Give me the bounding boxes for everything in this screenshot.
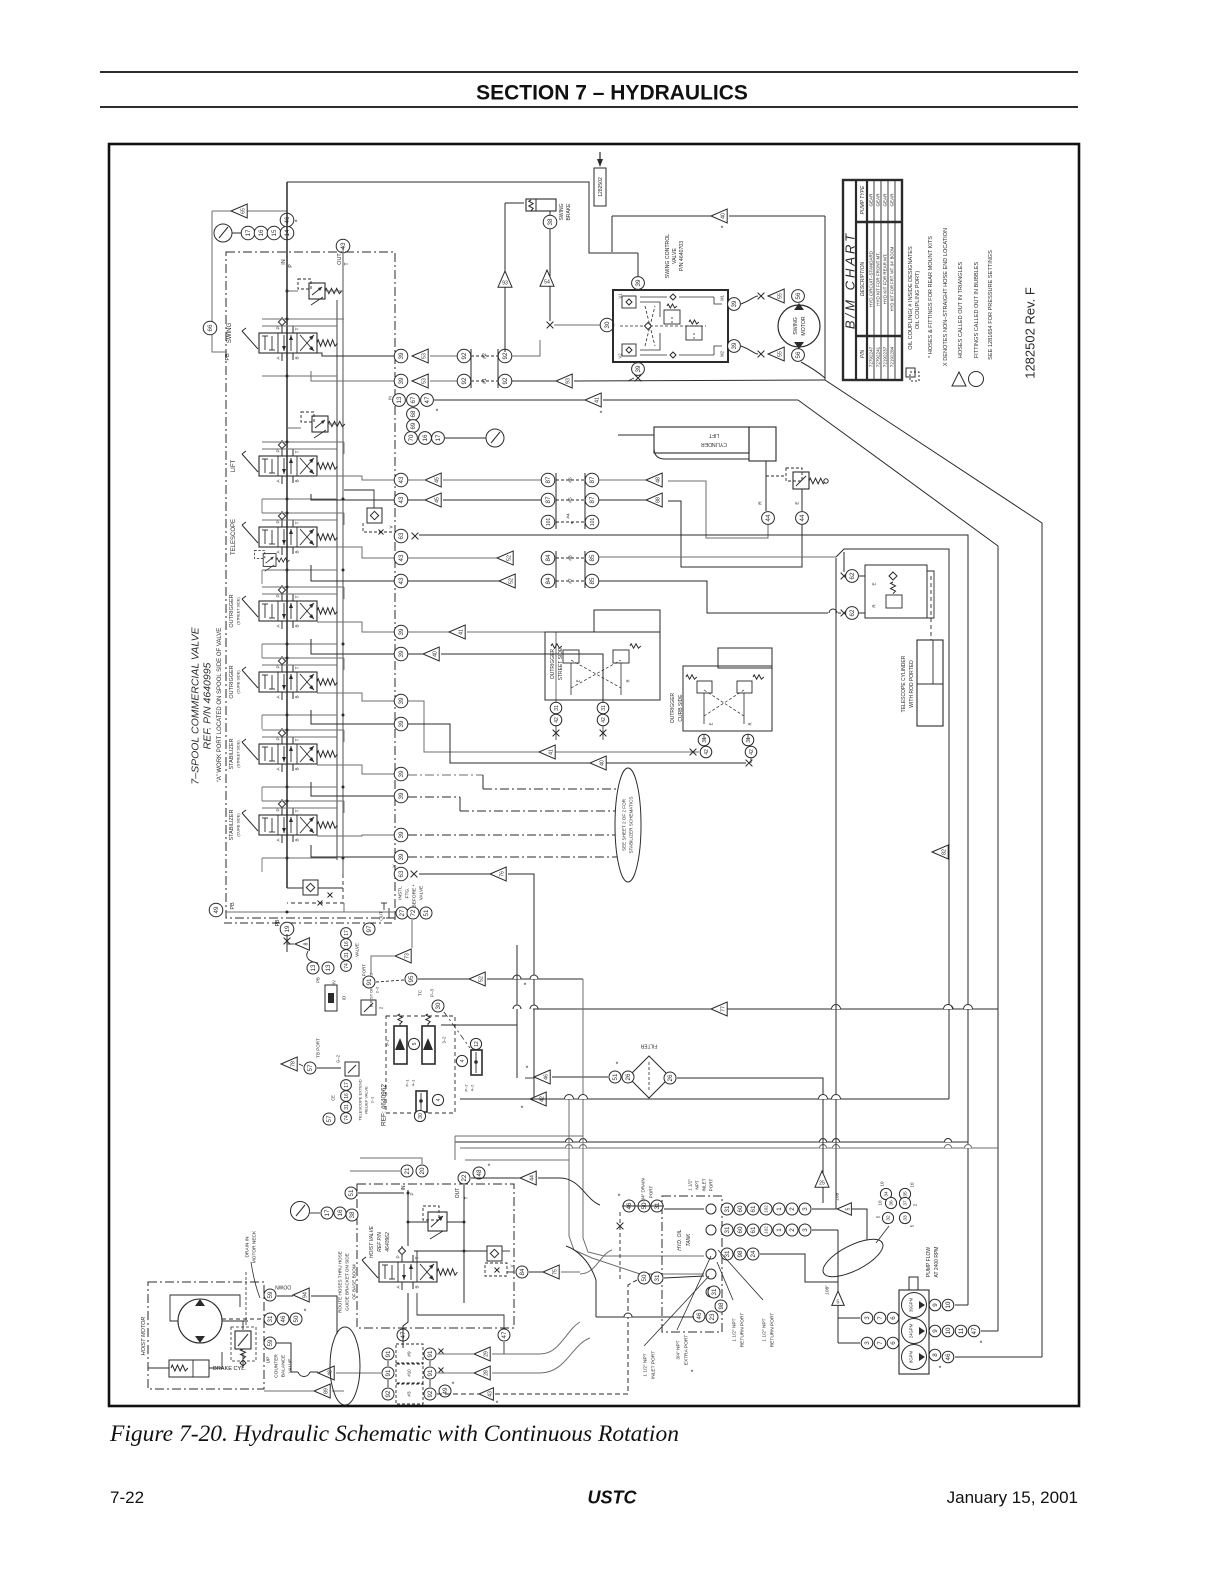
- x mark 62b: [841, 610, 848, 617]
- svg-text:12: 12: [474, 1041, 480, 1047]
- svg-text:*: *: [616, 1061, 619, 1068]
- coupling #5: [556, 499, 585, 501]
- svg-text:CE: CE: [330, 1095, 335, 1101]
- bubble 17: [241, 226, 255, 240]
- svg-text:59: 59: [267, 1291, 274, 1298]
- valve section V-TELESCOPE-537: [242, 511, 337, 555]
- wire os2 dn: [602, 726, 604, 740]
- svg-text:A: A: [276, 767, 281, 771]
- bubble 49 r3: [439, 1385, 451, 1397]
- bubble 66: [203, 321, 217, 335]
- svg-text:DRAIN IN: DRAIN IN: [245, 1236, 251, 1258]
- bubble 46 t: [623, 1200, 635, 1212]
- wire stabS B: [317, 765, 394, 774]
- svg-text:31: 31: [724, 1250, 731, 1257]
- svg-text:E: E: [795, 501, 801, 504]
- bubble 39 s1: [394, 767, 408, 781]
- coupling #7: [556, 580, 585, 582]
- svg-text:17: 17: [245, 229, 252, 236]
- pump circle 2: [902, 1319, 927, 1344]
- tag 1282502 box: [594, 168, 606, 206]
- bubble 39 m1: [728, 298, 741, 311]
- carryover above2 825: [262, 807, 337, 809]
- wire 47a: [403, 1293, 408, 1348]
- wire 40: [612, 215, 711, 217]
- svg-text:T: T: [344, 262, 350, 265]
- svg-text:BALANCE: BALANCE: [281, 1355, 287, 1377]
- svg-text:74: 74: [344, 963, 350, 969]
- svg-text:49: 49: [442, 1387, 449, 1394]
- svg-text:P: P: [396, 1255, 401, 1258]
- svg-text:EXTRA PORT: EXTRA PORT: [684, 1335, 690, 1365]
- svg-text:40: 40: [599, 760, 605, 766]
- valve section V-SWING: [242, 317, 337, 361]
- svg-text:E: E: [708, 722, 713, 725]
- bubble 37: [899, 1197, 910, 1208]
- svg-text:39: 39: [398, 377, 405, 384]
- lift relief valve: [793, 472, 809, 489]
- note oil coupling symbol: [906, 368, 915, 377]
- carryover above2 682: [262, 664, 337, 666]
- wire stabC B: [317, 835, 394, 836]
- svg-text:31: 31: [724, 1226, 731, 1233]
- svg-text:MOTOR NECK: MOTOR NECK: [252, 1230, 258, 1263]
- svg-text:*: *: [980, 1340, 983, 1347]
- svg-text:FILTER: FILTER: [640, 1042, 657, 1048]
- svg-text:57: 57: [307, 1064, 314, 1071]
- row1 bubbles: [721, 1203, 733, 1215]
- wire 44h: [471, 1177, 520, 1179]
- bubble 87 p2: [585, 473, 599, 487]
- motor inner wires: [170, 1295, 240, 1321]
- bubble 91: [363, 976, 375, 988]
- svg-text:FITTINGS CALLED OUT IN BUBBLES: FITTINGS CALLED OUT IN BUBBLES: [974, 261, 980, 358]
- x mark m1: [758, 293, 765, 300]
- x 19: [284, 938, 291, 945]
- triangle 40: [711, 209, 727, 223]
- svg-text:76: 76: [499, 871, 505, 877]
- bubble 47 a: [397, 1329, 409, 1341]
- carryover above 754: [262, 729, 344, 731]
- svg-text:72792247: 72792247: [869, 346, 874, 367]
- svg-text:6: 6: [890, 1316, 897, 1320]
- svg-text:B: B: [295, 624, 300, 627]
- svg-text:2: 2: [789, 1207, 796, 1211]
- dash t vert: [619, 1212, 621, 1280]
- svg-text:78: 78: [290, 1061, 296, 1067]
- wire r1 vert: [387, 1361, 389, 1366]
- svg-text:46: 46: [945, 1353, 952, 1360]
- riser link: [336, 300, 338, 860]
- triangle 77: [711, 1002, 727, 1016]
- svg-text:91: 91: [427, 1369, 434, 1376]
- svg-text:15: 15: [271, 229, 278, 236]
- bubble 48 h: [473, 1167, 485, 1179]
- wire lift E1: [668, 481, 768, 538]
- section links 611: [261, 644, 263, 658]
- vertical x836: [835, 558, 837, 1209]
- svg-text:BRAKE: BRAKE: [566, 203, 572, 221]
- svg-text:93: 93: [565, 378, 571, 384]
- wire gauge q: [445, 437, 486, 439]
- svg-text:10: 10: [910, 1182, 915, 1188]
- svg-text:A: A: [396, 1285, 401, 1289]
- cartridge 3-1: [394, 1026, 407, 1064]
- wire row1: [622, 1205, 664, 1207]
- svg-text:TANK: TANK: [686, 1233, 692, 1247]
- svg-text:5: 5: [910, 1224, 915, 1227]
- svg-text:8: 8: [303, 942, 309, 945]
- svg-text:HYD. OIL: HYD. OIL: [677, 1229, 683, 1251]
- wire 21 feed: [350, 1170, 400, 1172]
- bubble 10 q1: [942, 1299, 954, 1311]
- wire diagonal D1: [825, 380, 1042, 1357]
- svg-text:P: P: [276, 520, 281, 523]
- bubble 85 t1: [585, 551, 599, 565]
- svg-text:39: 39: [398, 853, 405, 860]
- svg-text:P–3: P–3: [430, 989, 435, 998]
- svg-text:55: 55: [777, 351, 783, 357]
- svg-text:39: 39: [398, 792, 405, 799]
- svg-text:30: 30: [435, 1002, 442, 1009]
- svg-text:32: 32: [886, 1215, 892, 1221]
- col2 bubble 17: [341, 1080, 352, 1091]
- coupling #3: [396, 1384, 423, 1404]
- triangle 5 b: [832, 1291, 844, 1305]
- wire o2 right2: [441, 654, 603, 702]
- svg-text:TC: TC: [418, 989, 423, 996]
- cartridge 4v: [471, 1050, 482, 1075]
- wire outS B: [317, 622, 394, 632]
- bubble 31 t5: [708, 1286, 720, 1298]
- hoist dash boundary: [357, 1184, 514, 1328]
- pump body: [899, 1290, 929, 1374]
- svg-text:X DENOTES NON–STRAIGHT HOSE EN: X DENOTES NON–STRAIGHT HOSE END LOCATION: [943, 228, 949, 366]
- svg-text:T: T: [295, 327, 300, 330]
- svg-text:*: *: [524, 982, 527, 989]
- svg-text:108”: 108”: [835, 1191, 841, 1201]
- svg-text:60: 60: [737, 1226, 744, 1233]
- wire swing A: [311, 371, 394, 381]
- svg-text:P–1: P–1: [404, 1079, 409, 1087]
- triangle 75: [543, 1265, 559, 1279]
- bubble 68 q: [407, 408, 420, 421]
- svg-text:*: *: [521, 1105, 524, 1112]
- triangle 82: [932, 845, 948, 859]
- wire s4 dashdot: [408, 856, 617, 858]
- x curb E: [690, 749, 697, 756]
- swing brake spring box: [526, 199, 556, 211]
- svg-text:10: 10: [878, 1200, 883, 1206]
- svg-text:TELESCOPE EXTEND: TELESCOPE EXTEND: [357, 1079, 362, 1120]
- bubble 56 b: [792, 349, 805, 362]
- svg-text:39: 39: [398, 770, 405, 777]
- bus left drops: [454, 1136, 456, 1160]
- svg-text:HYD CIRCUIT–STANDARD: HYD CIRCUIT–STANDARD: [869, 250, 874, 307]
- svg-text:A: A: [276, 550, 281, 554]
- svg-text:7: 7: [877, 1341, 884, 1345]
- wire c2 right: [408, 724, 746, 763]
- check valve CV3: [487, 1246, 502, 1261]
- wire filter right: [677, 1078, 823, 1203]
- svg-text:BEFORE *: BEFORE *: [412, 884, 418, 907]
- bubble 6 p1: [887, 1312, 899, 1324]
- svg-text:59: 59: [267, 1339, 274, 1346]
- svg-text:OIL COUPLING PORT): OIL COUPLING PORT): [915, 271, 921, 330]
- svg-text:3: 3: [864, 1341, 871, 1345]
- wire 108 hose A: [852, 1209, 867, 1240]
- coupling #1 box: [471, 380, 498, 382]
- svg-text:77: 77: [720, 1006, 726, 1012]
- carryover below 611: [262, 643, 337, 645]
- hoist relief: [423, 1206, 439, 1220]
- bubble 5: [408, 1038, 419, 1049]
- svg-text:#1: #1: [482, 378, 488, 384]
- svg-text:R: R: [872, 604, 877, 608]
- wire 93 riser: [504, 203, 506, 352]
- bubble 59 a: [264, 1289, 276, 1301]
- triangle 45 b: [425, 493, 441, 507]
- pressure riser P: [286, 182, 288, 888]
- wire o2 right: [408, 653, 423, 655]
- triangle 45 a: [425, 473, 441, 487]
- svg-text:MOTOR: MOTOR: [801, 316, 807, 335]
- svg-text:A: A: [276, 479, 281, 483]
- wire c1 right: [408, 701, 699, 752]
- svg-text:92: 92: [385, 1390, 392, 1397]
- svg-text:V1: V1: [617, 293, 622, 299]
- wire sw2 right: [430, 380, 457, 382]
- wire 874: [419, 873, 490, 875]
- svg-text:82: 82: [941, 849, 947, 855]
- drawing frame: [109, 144, 1079, 1406]
- wire v2 join: [628, 378, 634, 381]
- svg-text:10: 10: [945, 1301, 952, 1308]
- svg-text:T: T: [295, 521, 300, 524]
- svg-text:*: *: [939, 1365, 942, 1372]
- relief valve RV2: [301, 412, 345, 438]
- svg-text:4–1: 4–1: [410, 1079, 415, 1086]
- svg-text:43: 43: [340, 242, 347, 249]
- wire lift R: [765, 461, 767, 511]
- svg-text:#5: #5: [568, 497, 574, 503]
- svg-text:#2: #2: [482, 353, 488, 359]
- wire L1 right: [408, 479, 426, 481]
- bubble 42 os2: [597, 714, 609, 726]
- svg-text:T: T: [295, 809, 300, 812]
- svg-text:P: P: [276, 737, 281, 740]
- brake cyl: [169, 1360, 209, 1377]
- bubble 44 a: [762, 512, 775, 525]
- bubble 85 t2: [585, 574, 599, 588]
- wire 48b: [276, 1343, 298, 1372]
- triangle 44 h: [520, 1171, 536, 1185]
- wire tele A: [311, 565, 394, 581]
- wire pb dashdot: [224, 922, 394, 924]
- vertical x569: [569, 1099, 704, 1274]
- valve section V-STABILIZER-754: [242, 728, 337, 772]
- svg-text:RETURN PORT: RETURN PORT: [770, 1313, 776, 1348]
- svg-text:T: T: [295, 666, 300, 669]
- svg-text:87: 87: [545, 476, 552, 483]
- svg-text:PB: PB: [275, 919, 281, 926]
- svg-text:39: 39: [731, 342, 738, 349]
- x r2: [439, 1368, 444, 1373]
- svg-text:GEAR: GEAR: [883, 193, 888, 207]
- svg-text:STABILIZER: STABILIZER: [229, 809, 235, 840]
- bubble 72: [407, 907, 419, 919]
- svg-text:41: 41: [458, 629, 464, 635]
- carryover below swing: [262, 375, 337, 377]
- wire cb down: [242, 1354, 244, 1368]
- outrigger street block: [545, 632, 660, 700]
- svg-text:OUTRIGGER: OUTRIGGER: [229, 594, 235, 627]
- svg-text:28: 28: [483, 1370, 489, 1376]
- coupling #2 box: [470, 349, 472, 388]
- triangle 88 lift: [646, 493, 662, 507]
- bubble 4 a: [456, 1055, 467, 1066]
- bus y1148: [460, 1147, 998, 1149]
- svg-text:52: 52: [506, 555, 512, 561]
- svg-text:*: *: [571, 521, 574, 528]
- wire 51h: [358, 1192, 404, 1194]
- svg-text:10: 10: [880, 1181, 885, 1187]
- svg-text:46: 46: [543, 1074, 549, 1080]
- svg-text:91: 91: [385, 1350, 392, 1357]
- carryover above2 754: [262, 736, 337, 738]
- svg-text:87: 87: [589, 476, 596, 483]
- svg-text:USTC: USTC: [588, 1487, 638, 1507]
- junction dots 611: [286, 586, 289, 589]
- svg-text:CYLINDER: CYLINDER: [701, 441, 727, 447]
- lift relief pilot: [786, 468, 802, 481]
- svg-text:VALVE: VALVE: [355, 943, 360, 957]
- svg-text:(CURB SIDE): (CURB SIDE): [236, 670, 240, 694]
- wire 62 vert: [843, 552, 845, 572]
- svg-text:108”: 108”: [825, 1285, 831, 1295]
- svg-text:1 1/2” NPT: 1 1/2” NPT: [732, 1318, 738, 1341]
- svg-text:3/4” NPT: 3/4” NPT: [676, 1340, 682, 1359]
- svg-text:REF. P/N 4640995: REF. P/N 4640995: [202, 662, 214, 749]
- svg-text:2: 2: [913, 1203, 918, 1206]
- triangle 41 c: [539, 745, 555, 759]
- wire CV1 up: [344, 490, 374, 508]
- svg-text:PORT: PORT: [709, 1178, 714, 1191]
- bubble 39 sw1: [394, 349, 408, 363]
- bubble 9 q1: [929, 1299, 941, 1311]
- svg-text:E: E: [872, 582, 877, 585]
- svg-text:16: 16: [344, 941, 350, 947]
- svg-text:(CURB SIDE): (CURB SIDE): [236, 813, 240, 837]
- svg-text:13: 13: [325, 964, 332, 971]
- svg-text:SWING: SWING: [793, 317, 799, 335]
- svg-text:33: 33: [903, 1215, 909, 1221]
- cartridge 4h: [416, 1091, 427, 1112]
- bubble 92 a2: [498, 349, 512, 363]
- svg-text:BRAKE CYL.: BRAKE CYL.: [213, 1366, 246, 1372]
- svg-text:53: 53: [421, 353, 427, 359]
- lift cylinder: [654, 427, 749, 453]
- bubble 39 o2: [394, 647, 408, 661]
- svg-text:75: 75: [552, 1269, 558, 1275]
- leader drain: [251, 1262, 260, 1298]
- svg-text:PUMP TYPE: PUMP TYPE: [860, 185, 866, 214]
- wire 42m: [470, 1098, 530, 1100]
- bubble 47 b: [498, 1329, 510, 1341]
- svg-text:*: *: [304, 1308, 307, 1315]
- svg-text:OF BASE BOOM: OF BASE BOOM: [352, 1264, 357, 1299]
- telescope holding block: [865, 565, 927, 618]
- col2 bubble 31: [341, 1102, 352, 1113]
- triangle 54: [540, 270, 554, 286]
- wire oc2 up: [747, 734, 749, 740]
- svg-text:*: *: [452, 1381, 455, 1388]
- bubble 13 q: [393, 394, 406, 407]
- svg-text:P: P: [410, 1192, 415, 1195]
- wire relief link: [408, 1221, 428, 1223]
- svg-text:T: T: [295, 738, 300, 741]
- svg-text:3: 3: [864, 1316, 871, 1320]
- triangle 5 a: [837, 1203, 851, 1215]
- relief valve RV1 (swing): [298, 279, 342, 305]
- svg-text:1: 1: [776, 1228, 783, 1232]
- svg-text:SWING CONTROL: SWING CONTROL: [665, 234, 671, 278]
- svg-text:7-22: 7-22: [110, 1488, 144, 1507]
- wire q1: [955, 1304, 968, 1306]
- carryover above swing: [262, 318, 344, 320]
- svg-text:31: 31: [746, 737, 752, 743]
- wire row4: [664, 1276, 704, 1278]
- relief valve RV3: [254, 550, 289, 571]
- svg-text:39: 39: [398, 628, 405, 635]
- svg-text:92: 92: [461, 352, 468, 359]
- wire m1 hose: [741, 296, 758, 304]
- svg-text:39: 39: [635, 365, 642, 372]
- wire tele B: [317, 547, 394, 558]
- bubble 9 q2: [929, 1325, 941, 1337]
- svg-text:B: B: [295, 838, 300, 841]
- bubble 8 q3: [929, 1349, 941, 1361]
- svg-text:P–2: P–2: [463, 1084, 468, 1092]
- svg-text:B: B: [295, 479, 300, 482]
- bubble 16: [254, 226, 268, 240]
- triangle 55 a: [768, 289, 784, 303]
- wire 94: [277, 1295, 293, 1297]
- svg-text:11: 11: [958, 1327, 965, 1334]
- row3 bubbles: [721, 1248, 733, 1260]
- counterbalance valve: [235, 1331, 251, 1349]
- svg-text:OUTRIGGER: OUTRIGGER: [229, 665, 235, 698]
- bubble 7 p2: [874, 1337, 886, 1349]
- svg-text:January 15, 2001: January 15, 2001: [947, 1488, 1078, 1507]
- svg-text:V: V: [389, 525, 394, 528]
- svg-text:1282502 Rev. F: 1282502 Rev. F: [1023, 287, 1038, 379]
- lift cyl hose: [654, 448, 749, 459]
- bubble 31 oc2: [742, 734, 754, 746]
- svg-text:2: 2: [789, 1228, 796, 1232]
- svg-text:38: 38: [349, 1211, 356, 1218]
- svg-text:4640962: 4640962: [385, 1232, 391, 1252]
- wire sw up: [512, 340, 540, 356]
- bubble 31 t1: [651, 1200, 663, 1212]
- wire brake to 30: [554, 324, 600, 326]
- coupling #4: [556, 521, 585, 523]
- leader inlet: [644, 1276, 709, 1346]
- svg-text:5: 5: [412, 1042, 418, 1045]
- svg-text:40: 40: [432, 651, 438, 657]
- triangle 8: [295, 938, 309, 950]
- svg-text:AT 2400 RPM: AT 2400 RPM: [934, 1247, 940, 1278]
